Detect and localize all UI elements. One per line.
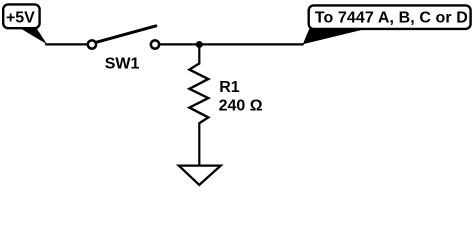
svg-text:R1: R1 [219,79,240,96]
svg-text:SW1: SW1 [105,56,140,73]
svg-text:To 7447 A, B, C or D: To 7447 A, B, C or D [315,9,468,26]
svg-text:240 Ω: 240 Ω [219,98,263,115]
svg-text:+5V: +5V [6,9,35,26]
